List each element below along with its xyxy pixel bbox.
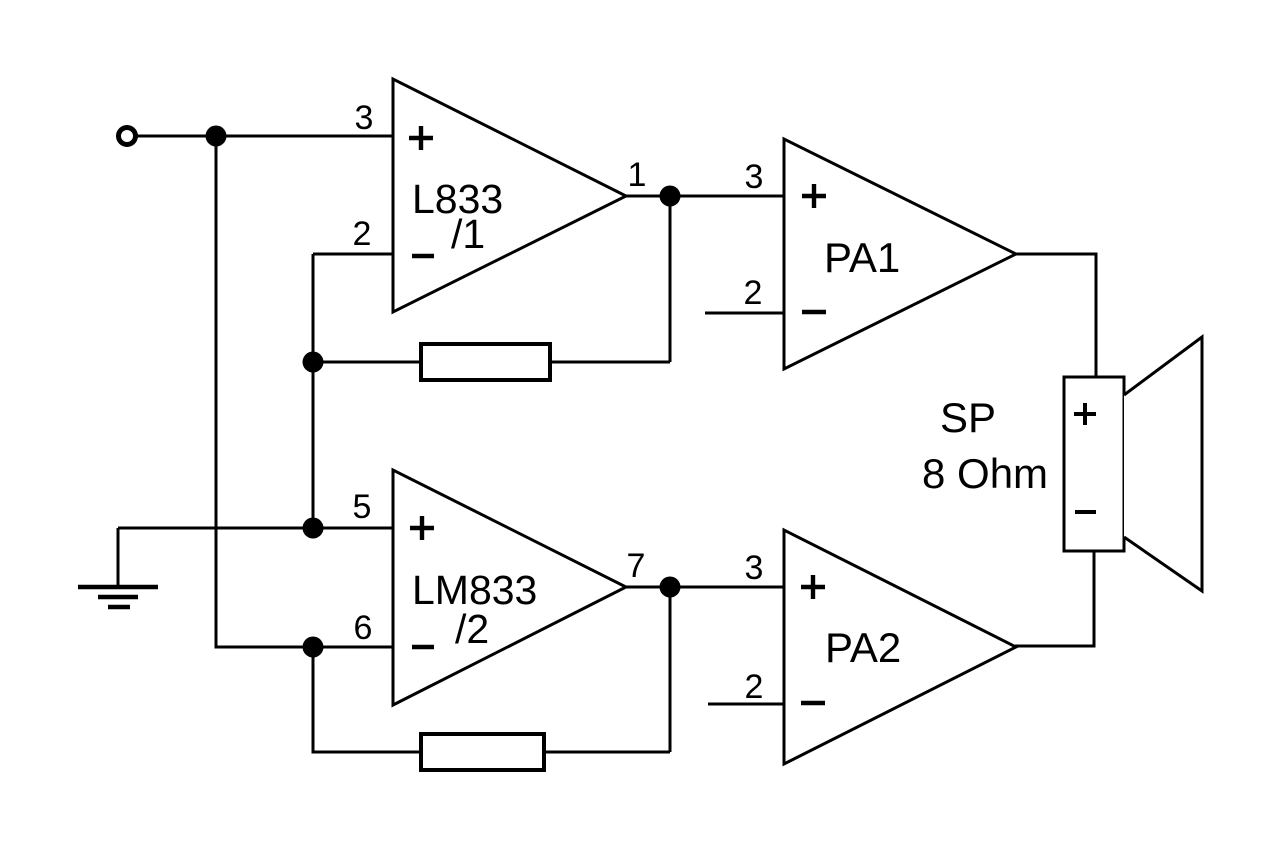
wire resistor R2 to output column [544,751,670,754]
svg-text:/2: /2 [455,606,489,652]
wire U2 output to PA2 pin3 [625,586,784,589]
amplifier PA1 triangle [784,139,1016,369]
svg-text:7: 7 [627,547,646,585]
amplifier PA2 triangle [784,530,1016,764]
wire input junction down to U2 pin6 corner [216,136,394,647]
op-amp U2 triangle [393,470,626,705]
speaker SP terminal block [1064,377,1124,551]
resistor R2 [421,734,544,770]
speaker plus terminal symbol [1074,403,1096,425]
wire PA1 pin2 stub [705,312,784,315]
wire PA2 pin2 stub [708,703,784,706]
op-amp U1 triangle [393,79,626,312]
PA2 minus input symbol [801,701,825,705]
wire vertical pin2/feedback/ground column [312,254,315,529]
wire U1 pin2 from feedback node [313,253,394,256]
input terminal [119,128,136,145]
node U1 feedback junction [303,352,324,373]
node input junction [206,126,227,147]
op-amp U1 plus input symbol [409,126,433,150]
svg-text:PA2: PA2 [825,624,901,671]
node U2 pin6 junction [303,637,324,658]
wire resistor R1 to output column [550,361,670,364]
node U2 pin5 junction [303,518,324,539]
wire U2 output down to feedback [669,587,672,752]
ground [78,528,158,607]
PA1 minus input symbol [802,310,826,314]
svg-text:2: 2 [353,215,372,253]
wire PA1 output to speaker [1015,254,1096,377]
svg-text:/1: /1 [451,211,485,257]
wire U1 output down to feedback [669,196,672,362]
op-amp U2 plus input symbol [410,516,434,540]
wire input to U1 pin3 [135,135,394,138]
wire ground to U2 pin5 [118,527,394,530]
resistor R1 [421,344,550,380]
svg-text:2: 2 [744,274,763,312]
PA1 plus input symbol [802,184,826,208]
wire pin6 junction down to resistor R2 [313,647,421,752]
svg-text:3: 3 [745,158,764,196]
node U1 output [660,186,681,207]
op-amp U1 minus input symbol [412,254,434,258]
wire U1 output to PA1 pin3 [625,195,784,198]
wire feedback node to resistor R1 [313,361,421,364]
svg-text:SP: SP [940,394,996,441]
svg-text:3: 3 [745,549,764,587]
svg-text:6: 6 [354,609,373,647]
node U2 output [660,577,681,598]
speaker minus terminal symbol [1075,510,1096,514]
svg-text:5: 5 [353,488,372,526]
svg-text:3: 3 [355,99,374,137]
op-amp U2 minus input symbol [412,645,434,649]
svg-text:8 Ohm: 8 Ohm [922,450,1048,497]
wire PA2 output to speaker [1015,550,1094,646]
PA2 plus input symbol [801,575,825,599]
svg-text:2: 2 [745,668,764,706]
svg-text:1: 1 [628,156,647,194]
svg-text:PA1: PA1 [824,234,900,281]
speaker horn [1124,337,1202,591]
